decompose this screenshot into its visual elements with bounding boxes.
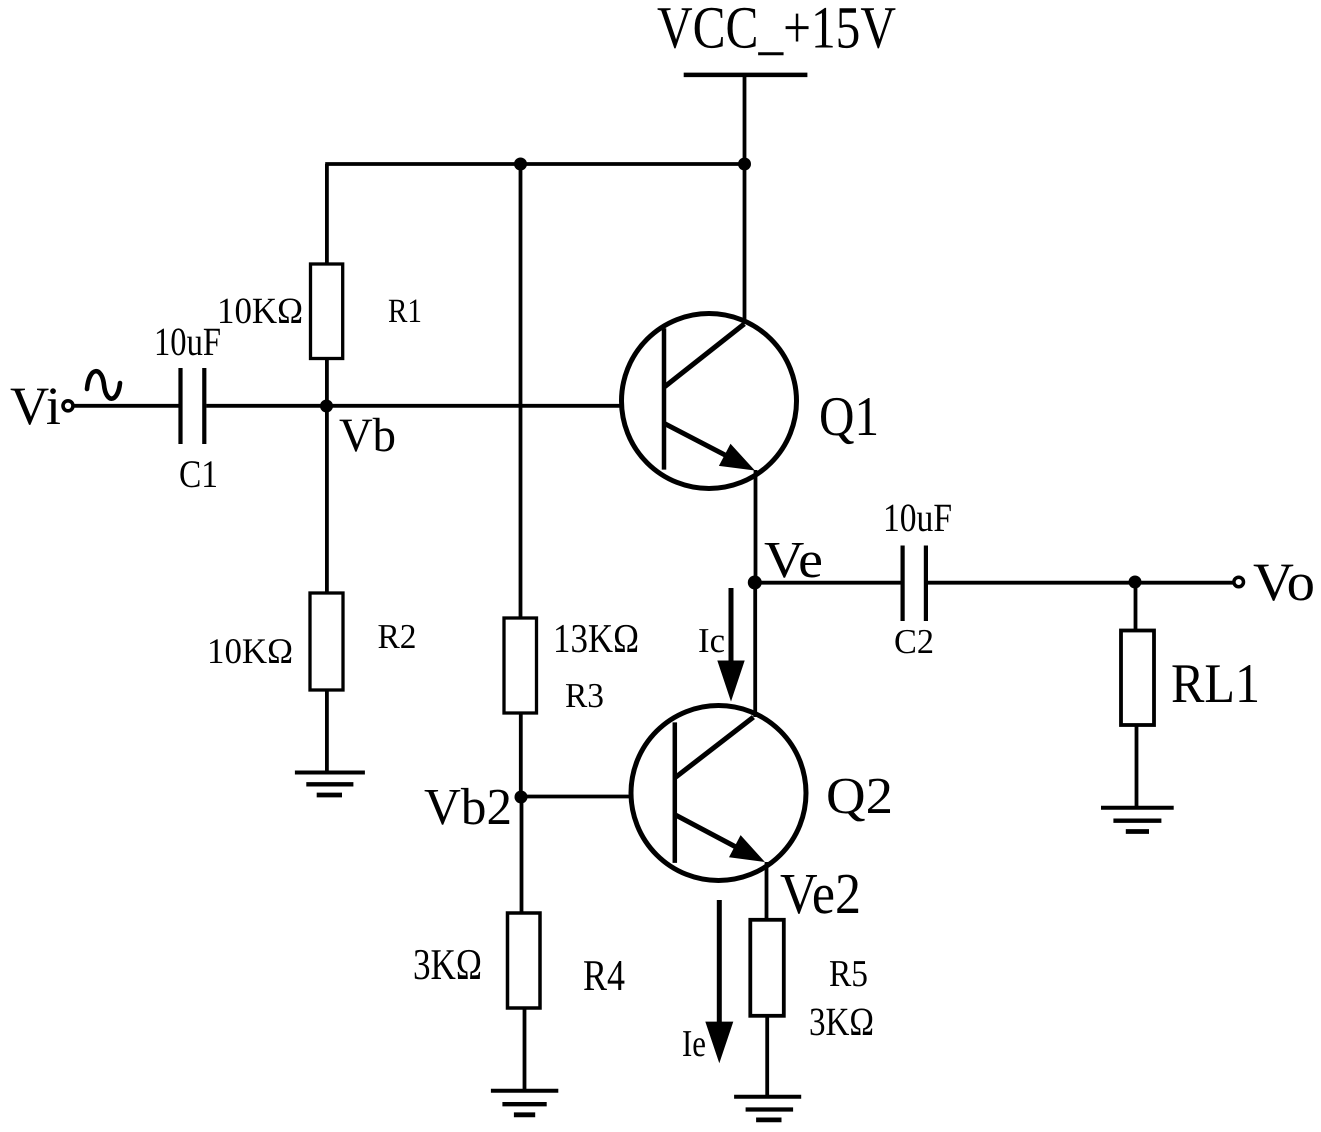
Q1 circle [622,314,797,489]
wire Q1 collector to top bus [743,164,747,324]
Q1 emitter diagonal [665,424,741,464]
resistor R1 [311,264,343,359]
svg-text:VCC_+15V: VCC_+15V [657,0,896,61]
Q2 collector diagonal [676,717,754,777]
resistor RL1 [1121,631,1154,726]
svg-text:R4: R4 [583,951,625,1000]
wire Vo node to RL1 [1134,582,1138,631]
terminal Vi [63,401,73,411]
current arrow Ie [705,900,733,1063]
ground under RL1 [1101,808,1174,832]
Q2 base bar [673,722,678,863]
wire RL1 to ground [1135,725,1139,808]
wire R5 to ground [765,1016,769,1097]
source sine symbol [87,371,120,398]
svg-text:Ve2: Ve2 [780,861,861,926]
svg-text:Ic: Ic [698,621,725,660]
wire Q1 emitter to node Ve [754,470,758,583]
wire Ve to Q2 collector [753,583,757,717]
wire R4 to ground [523,1008,527,1091]
svg-text:10uF: 10uF [154,319,221,364]
transistor Q1 [622,314,797,489]
node Ve dot [748,576,762,590]
terminal Vo [1234,577,1244,587]
Q1 collector diagonal [665,324,745,387]
transistor Q2 [631,706,806,881]
svg-text:Vb2: Vb2 [424,779,512,836]
svg-text:3KΩ: 3KΩ [809,999,874,1044]
ground under R5 [734,1097,801,1120]
svg-text:Q2: Q2 [826,768,893,825]
power VCC bar [684,73,808,78]
wire C1 to Q1 base [206,404,621,408]
wire Q2 emitter to R5 [765,862,769,920]
svg-text:10KΩ: 10KΩ [207,631,293,671]
Q1 emitter arrowhead [719,444,755,471]
wire Vi to C1 [75,404,179,408]
wire Vb2 to R4 [520,797,524,913]
wire VCC bar to top bus [743,75,747,164]
Q2 emitter diagonal [676,815,751,855]
wire top bus to R3 [519,164,523,618]
wire C2 to Vo [928,581,1234,585]
svg-text:C2: C2 [894,622,934,661]
capacitor C2 [903,546,926,622]
svg-text:RL1: RL1 [1171,653,1260,715]
svg-text:3KΩ: 3KΩ [413,940,482,989]
resistor R3 [504,618,537,713]
ground under R4 [491,1091,558,1115]
svg-text:C1: C1 [179,453,218,496]
resistor R2 [310,593,343,690]
wire R3 to node Vb2 [519,713,523,797]
svg-text:Vb: Vb [339,409,396,462]
svg-text:Ve: Ve [764,532,823,589]
wire top bus horizontal [325,162,744,166]
svg-text:R5: R5 [829,953,868,995]
svg-text:Q1: Q1 [819,386,879,448]
wire R1 to node Vb [325,359,329,406]
Q1 base bar [662,328,667,469]
node junction dot top bus / R3 column [514,158,527,171]
Q2 emitter arrowhead [729,835,765,862]
svg-text:Ie: Ie [682,1023,706,1065]
svg-text:Vi: Vi [10,376,61,436]
wire Vb2 to Q2 base [521,795,632,799]
current arrow Ic [717,588,744,702]
svg-text:R3: R3 [565,676,604,715]
ground under R2 [295,773,365,796]
wire Vb to R2 [325,406,329,593]
svg-text:Vo: Vo [1253,552,1315,612]
capacitor C1 [181,368,205,444]
wire Ve to C2 [755,581,901,585]
resistor R5 [750,920,784,1016]
svg-text:R2: R2 [378,617,417,656]
wire R2 to ground [325,690,329,773]
node Vb2 dot [515,791,528,804]
node junction dot top bus / VCC column [738,158,751,171]
svg-text:10KΩ: 10KΩ [217,291,303,332]
node Vb dot [320,400,333,413]
svg-text:13KΩ: 13KΩ [553,615,639,661]
wire top bus to R1 [325,164,329,264]
node junction dot RL1 [1129,576,1142,589]
resistor R4 [508,913,541,1008]
svg-text:R1: R1 [388,293,422,330]
svg-text:10uF: 10uF [883,495,952,540]
Q2 circle [631,706,806,881]
